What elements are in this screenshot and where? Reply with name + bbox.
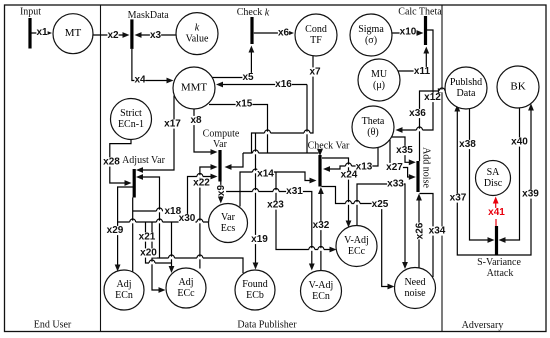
- svg-text:x38: x38: [459, 139, 476, 150]
- svg-text:Disc: Disc: [484, 178, 503, 189]
- svg-text:Adjust Var: Adjust Var: [122, 155, 166, 166]
- svg-text:x6: x6: [278, 28, 290, 39]
- svg-text:x21: x21: [139, 232, 156, 243]
- svg-text:Found: Found: [242, 279, 268, 290]
- svg-text:Value: Value: [186, 33, 209, 44]
- svg-text:Adversary: Adversary: [462, 320, 504, 331]
- svg-text:x13: x13: [356, 162, 373, 173]
- svg-text:x27: x27: [386, 162, 403, 173]
- svg-text:x32: x32: [313, 220, 330, 231]
- svg-text:Cond: Cond: [305, 24, 327, 35]
- svg-text:End User: End User: [34, 320, 72, 331]
- svg-text:Sigma: Sigma: [358, 24, 384, 35]
- svg-text:Check Var: Check Var: [308, 141, 350, 152]
- svg-text:ECc: ECc: [348, 246, 366, 257]
- svg-text:ECn-1: ECn-1: [118, 119, 144, 130]
- svg-text:x23: x23: [267, 200, 284, 211]
- svg-text:ECb: ECb: [246, 290, 264, 301]
- svg-text:x31: x31: [286, 186, 303, 197]
- svg-text:MaskData: MaskData: [128, 10, 170, 21]
- svg-text:Need: Need: [404, 277, 425, 288]
- svg-text:noise: noise: [404, 288, 426, 299]
- svg-text:x7: x7: [309, 67, 321, 78]
- svg-text:Theta: Theta: [362, 116, 385, 127]
- svg-text:TF: TF: [310, 35, 322, 46]
- svg-text:x10: x10: [400, 27, 417, 38]
- svg-text:ECn: ECn: [312, 291, 330, 302]
- svg-text:Var: Var: [221, 212, 236, 223]
- svg-text:x17: x17: [164, 119, 181, 130]
- svg-text:Data: Data: [457, 88, 476, 99]
- svg-text:x15: x15: [236, 99, 253, 110]
- svg-text:MT: MT: [65, 27, 82, 39]
- svg-text:Input: Input: [20, 7, 41, 18]
- svg-text:ECn: ECn: [115, 290, 133, 301]
- svg-text:x39: x39: [522, 189, 539, 200]
- svg-text:V-Adj: V-Adj: [344, 235, 369, 246]
- svg-text:(θ): (θ): [367, 127, 378, 138]
- svg-text:Attack: Attack: [487, 268, 514, 279]
- svg-text:Data Publisher: Data Publisher: [237, 320, 297, 331]
- svg-text:V-Adj: V-Adj: [309, 280, 334, 291]
- svg-text:BK: BK: [510, 81, 525, 93]
- svg-text:(μ): (μ): [373, 80, 385, 91]
- svg-text:x22: x22: [193, 178, 210, 189]
- svg-text:x29: x29: [107, 225, 124, 236]
- svg-text:Publshd: Publshd: [450, 77, 482, 88]
- svg-text:x12: x12: [424, 92, 441, 103]
- svg-text:x9: x9: [216, 185, 227, 197]
- svg-text:x26: x26: [415, 222, 426, 239]
- svg-text:ECc: ECc: [177, 288, 195, 299]
- svg-text:Strict: Strict: [120, 108, 142, 119]
- svg-text:Add noise: Add noise: [420, 147, 431, 188]
- svg-text:x14: x14: [257, 169, 274, 180]
- svg-text:x2: x2: [107, 30, 119, 41]
- svg-text:MU: MU: [371, 69, 388, 80]
- svg-text:x16: x16: [275, 79, 292, 90]
- svg-text:Calc Theta: Calc Theta: [398, 7, 442, 18]
- svg-text:k: k: [195, 22, 200, 33]
- svg-text:x3: x3: [150, 30, 162, 41]
- svg-text:x8: x8: [190, 115, 202, 126]
- svg-text:x33: x33: [387, 179, 404, 190]
- svg-text:Check k: Check k: [237, 7, 270, 18]
- svg-text:x41: x41: [488, 207, 505, 218]
- svg-text:x34: x34: [429, 226, 446, 237]
- svg-text:MMT: MMT: [181, 82, 208, 94]
- svg-text:x11: x11: [414, 66, 431, 77]
- svg-text:x24: x24: [341, 170, 358, 181]
- svg-text:(σ): (σ): [365, 35, 377, 46]
- svg-text:x36: x36: [409, 108, 426, 119]
- svg-text:x37: x37: [450, 193, 467, 204]
- svg-text:SA: SA: [487, 167, 501, 178]
- svg-text:x35: x35: [396, 145, 413, 156]
- svg-text:x20: x20: [140, 248, 157, 259]
- svg-text:x40: x40: [511, 137, 528, 148]
- svg-text:Var: Var: [213, 139, 228, 150]
- svg-text:Compute: Compute: [203, 129, 240, 140]
- svg-text:x25: x25: [372, 199, 389, 210]
- svg-text:x30: x30: [179, 213, 196, 224]
- svg-text:x5: x5: [242, 72, 254, 83]
- svg-text:Adj: Adj: [117, 279, 132, 290]
- svg-text:Adj: Adj: [179, 277, 194, 288]
- svg-text:x4: x4: [134, 75, 146, 86]
- svg-text:x19: x19: [251, 234, 268, 245]
- svg-text:x1: x1: [36, 27, 48, 38]
- svg-text:Ecs: Ecs: [221, 223, 236, 234]
- svg-text:x28: x28: [103, 157, 120, 168]
- svg-text:S-Variance: S-Variance: [477, 257, 521, 268]
